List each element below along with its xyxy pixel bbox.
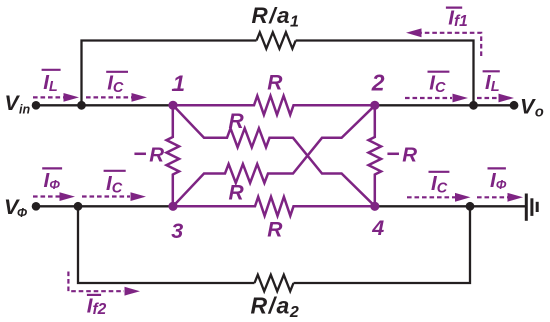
current arrow Iphi bottom-left [33,195,60,197]
arrowhead IC bottom-left [131,192,147,201]
arrowhead IC top-left [132,93,148,102]
svg-text:−R: −R [386,141,417,167]
label IC bottom-left [104,171,126,197]
label IC top-right [428,71,450,95]
svg-text:−R: −R [133,141,164,167]
label IL top-right [483,71,500,95]
svg-text:R: R [267,219,283,242]
svg-text:2: 2 [371,70,385,96]
current arrow If2 path [68,272,124,292]
wire top feedback rail right part [296,41,474,106]
arrowhead Iphi bottom-right [508,193,524,202]
wire node3 to node4 with resistor R [173,197,375,216]
arrowhead IC bottom-right [455,193,471,202]
resistor -R right [369,105,382,206]
arrowhead If2 [125,287,141,296]
node 4 [370,202,379,211]
node Vo dot [510,101,519,110]
label If1 [446,7,468,31]
arrowhead IC top-right [453,94,469,103]
wire node3 to node2 with resistor R (lower cross path) [173,105,375,206]
arrowhead If1 [406,28,422,37]
wire node1 to node4 with resistor R (upper cross path) [173,105,375,206]
resistor R/a1 [257,32,296,48]
svg-text:1: 1 [173,71,185,96]
svg-text:4: 4 [371,216,384,240]
arrowhead Iphi bottom-left [60,192,76,201]
label Iphi bottom-left [42,168,62,192]
current arrow IC bottom-left [82,195,130,197]
ground [526,194,537,221]
current arrow Iphi bottom-right [477,196,508,198]
node junction bottom-left [74,202,83,211]
label If2 [87,295,107,319]
svg-text:R: R [229,182,245,205]
node junction top-left [77,101,86,110]
node junction top-right [469,101,478,110]
wire node 2 to Vo [375,104,514,106]
node 3 [168,202,177,211]
current arrow IC bottom-right [407,196,455,198]
arrowhead IL top-left [64,93,80,102]
current arrow If1 path [420,33,481,56]
node junction bottom-right [466,202,475,211]
wire node 4 to ground [375,205,526,207]
wire Vin to node 1 [36,104,173,106]
label Iphi bottom-right [488,168,507,192]
svg-text:R: R [229,110,245,133]
node 2 [370,101,379,110]
wire Vphi to node 3 [36,205,173,207]
current arrow IL top-right [477,97,499,99]
current arrow IC top-left [86,96,133,98]
svg-text:R: R [267,71,283,94]
wire bottom feedback rail right part [294,206,471,283]
wire top feedback rail left part [82,41,257,106]
arrowhead IL top-right [499,94,515,103]
wire bottom feedback rail left part [78,206,255,283]
resistor R/a2 [255,275,294,291]
label IC top-left [106,71,128,95]
label IC bottom-right [429,172,450,197]
label IL top-left [42,70,61,95]
current arrow IL top-left [33,96,65,98]
current arrow IC top-right [405,97,452,99]
label node 1 [172,71,185,96]
node Vin dot [32,101,41,110]
wire node1 to node2 with resistor R [173,96,375,115]
resistor -R left [167,105,180,206]
current arrows [33,33,508,291]
node Vphi dot [32,202,41,211]
node 1 [168,101,177,110]
svg-text:3: 3 [171,219,183,243]
